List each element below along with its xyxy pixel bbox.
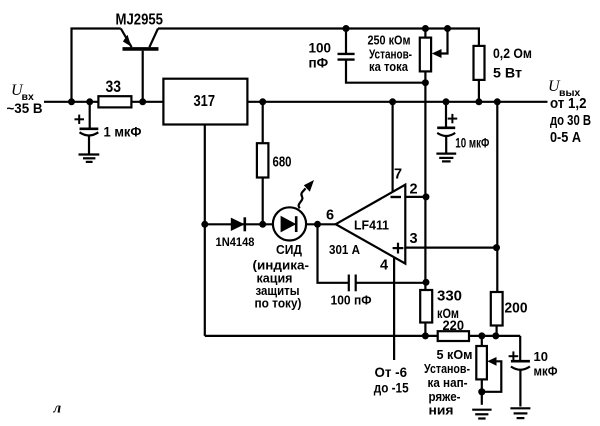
svg-text:3: 3: [410, 231, 418, 247]
label 100 пФ top: [309, 41, 332, 71]
wire feedback loop left (node6 down and right): [318, 224, 349, 282]
junction 250k bottom / 100pF return: [422, 79, 429, 86]
wire 680 upper lead: [262, 102, 264, 143]
node Uвых output label: [548, 78, 580, 99]
capacitor C4 10 мкФ (output, polarized): [437, 102, 457, 153]
wire ADJ pin of 317 down to bottom rail: [204, 125, 206, 336]
svg-text:1 мкФ: 1 мкФ: [104, 124, 142, 140]
junction pin3/200 node: [493, 244, 500, 251]
resistor R2 680: [257, 143, 269, 177]
wire input rail: [44, 101, 163, 103]
svg-text:до 30 В: до 30 В: [550, 113, 591, 129]
svg-text:LF411: LF411: [354, 218, 389, 233]
junction adj/diode node: [201, 221, 208, 228]
potentiometer R8 5 кОм: [476, 336, 501, 405]
wire feedback loop right (cap to pin2 chain): [356, 282, 426, 284]
svg-text:~35 В: ~35 В: [7, 101, 43, 116]
capacitor C1 1 мкФ (input, polarized): [75, 102, 99, 154]
resistor R7 220: [438, 331, 469, 341]
junction 680/LED node: [259, 221, 266, 228]
junction output rail / 0.2 ohm bottom: [475, 98, 482, 105]
junction output rail / 10uF tap: [443, 98, 450, 105]
op-amp plus sign: [393, 243, 404, 254]
ground (5k pot): [472, 410, 491, 419]
svg-text:ка тока: ка тока: [369, 59, 409, 74]
junction pin7 tap on output rail: [389, 98, 396, 105]
svg-text:1N4148: 1N4148: [216, 235, 255, 249]
wire bottom feedback rail: [205, 335, 520, 337]
svg-text:7: 7: [394, 167, 402, 183]
svg-text:л: л: [53, 401, 62, 417]
wire 330k bottom lead: [424, 323, 426, 336]
wire pin 3 stub: [405, 247, 496, 249]
junction 330k bottom on rail: [422, 332, 429, 339]
svg-text:33: 33: [106, 78, 122, 96]
wire 200 upper lead: [496, 102, 498, 292]
svg-text:200: 200: [505, 300, 528, 317]
svg-text:0,2 Ом: 0,2 Ом: [493, 45, 532, 61]
wire 200 lower lead: [496, 326, 498, 336]
wire pot bottom down to 330k (crosses output rail, no junction): [424, 83, 426, 290]
svg-text:ния: ния: [429, 403, 454, 418]
wire pin 7 to output rail: [392, 102, 394, 192]
capacitor C5 10 мкФ (bottom, polarized): [509, 336, 530, 407]
junction feedback/330k top: [423, 279, 430, 286]
transistor Q1 MJ2955: [121, 29, 159, 102]
node Uвх input label: [11, 82, 34, 103]
junction node 6 (LED / op-amp input): [314, 221, 321, 228]
wire output rail: [247, 101, 547, 103]
resistor R6 200: [491, 292, 503, 326]
wire 680 lower lead: [262, 178, 264, 225]
wire pin 2 stub: [405, 196, 426, 198]
svg-text:мкФ: мкФ: [534, 364, 558, 379]
junction base node (33 ohm / 317 input): [139, 98, 146, 105]
svg-text:10 мкФ: 10 мкФ: [455, 136, 489, 151]
potentiometer R3 250 кОм: [420, 29, 448, 83]
junction input/1uF tap: [86, 98, 93, 105]
svg-text:680: 680: [273, 154, 292, 171]
svg-text:5 кОм: 5 кОм: [437, 347, 473, 362]
svg-text:по току): по току): [255, 297, 302, 311]
wire top rail (collector to 0.2 Ohm resistor): [158, 29, 479, 46]
svg-text:0-5 А: 0-5 А: [550, 130, 581, 146]
svg-text:100: 100: [309, 41, 332, 56]
junction output rail / 200 tap: [494, 98, 501, 105]
svg-text:до -15: до -15: [374, 380, 409, 396]
junction 200 bottom on rail: [492, 332, 499, 339]
junction top rail / 250k pot top: [422, 25, 429, 32]
ground (output capacitor): [436, 154, 456, 162]
svg-text:10: 10: [534, 349, 548, 364]
junction input/emitter tap: [68, 98, 75, 105]
svg-text:СИД: СИД: [276, 242, 303, 257]
junction top rail / 100pF tap: [343, 25, 350, 32]
svg-text:6: 6: [326, 208, 334, 224]
resistor R1 33: [98, 96, 131, 107]
svg-text:(индика-: (индика-: [253, 258, 310, 272]
diode VD1 1N4148: [231, 217, 245, 231]
op-amp minus sign: [391, 196, 402, 198]
ground (bottom capacitor): [510, 408, 530, 418]
svg-text:2: 2: [410, 182, 418, 198]
LED VD2 СИД: [273, 180, 314, 240]
svg-text:от 1,2: от 1,2: [550, 96, 587, 112]
op-amp U2 LF411 triangle: [336, 185, 406, 264]
regulator U1 317: [163, 79, 247, 125]
junction 680 tap on output rail: [259, 98, 266, 105]
svg-text:330: 330: [437, 288, 462, 305]
ground (input capacitor): [79, 155, 100, 162]
svg-text:250 кОм: 250 кОм: [368, 33, 411, 48]
capacitor C3 100 пФ (current-set): [338, 29, 426, 83]
svg-text:220: 220: [443, 318, 465, 333]
resistor R4 330 кОм: [420, 290, 432, 323]
capacitor C2 100 пФ feedback: [349, 275, 356, 292]
wire pin 4 negative supply lead: [393, 258, 395, 361]
svg-text:5 Вт: 5 Вт: [493, 65, 522, 81]
svg-text:ка нап-: ка нап-: [428, 375, 468, 390]
wire diode row: [205, 223, 336, 225]
junction 5k bottom / wiper: [478, 388, 485, 395]
junction top rail / 250k wiper: [444, 25, 451, 32]
svg-text:301 А: 301 А: [329, 242, 361, 257]
svg-text:4: 4: [380, 258, 388, 274]
svg-text:MJ2955: MJ2955: [116, 12, 164, 29]
svg-text:100 пФ: 100 пФ: [331, 293, 372, 308]
svg-text:пФ: пФ: [309, 56, 329, 71]
junction pin 2 node: [423, 193, 430, 200]
junction 5k pot top: [478, 332, 485, 339]
resistor R5 0,2 Ом 5 Вт: [474, 46, 485, 102]
svg-text:Установ-: Установ-: [424, 361, 470, 376]
svg-text:От -6: От -6: [375, 364, 408, 380]
svg-text:317: 317: [194, 93, 216, 110]
wire emitter riser (input to transistor emitter): [72, 29, 121, 102]
